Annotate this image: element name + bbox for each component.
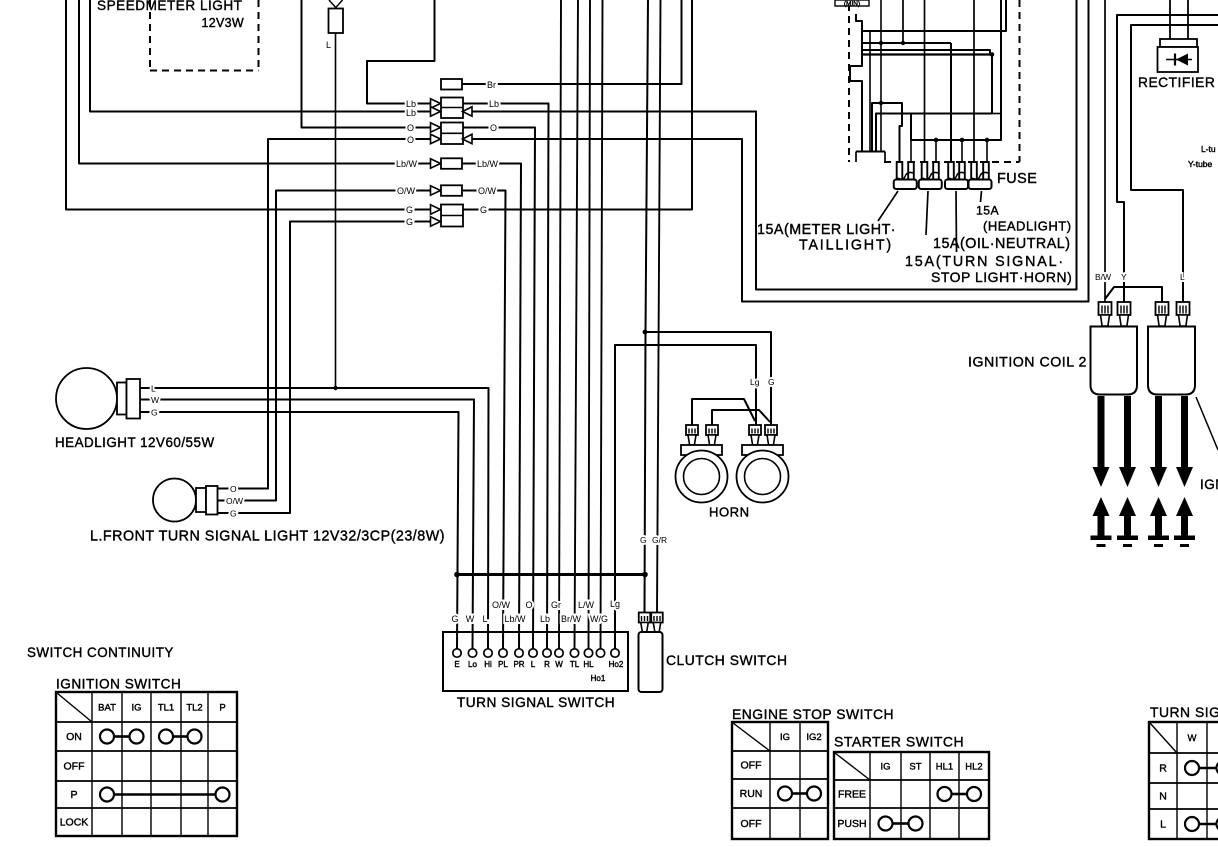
pin L of turn signal switch: [529, 649, 537, 657]
wire W/G from top to pin Ho1: [601, 0, 603, 649]
pin Hi of turn signal switch: [484, 649, 492, 657]
svg-text:R: R: [544, 660, 550, 669]
wire G row1 right, up to top edge: [463, 0, 692, 210]
svg-text:L: L: [1180, 272, 1185, 282]
svg-text:TL2: TL2: [186, 703, 202, 714]
spark plug lead arrow 2: [1124, 396, 1131, 469]
wire to fuse 3: [950, 43, 952, 163]
wire V881: [880, 0, 882, 152]
wire L to coil cap 4: [1131, 25, 1218, 302]
svg-text:IG: IG: [780, 732, 790, 743]
starter switch continuity table: [834, 752, 989, 839]
svg-text:Lb/W: Lb/W: [477, 159, 499, 169]
svg-text:O: O: [407, 135, 414, 145]
coil cap Y: [1118, 302, 1131, 315]
svg-text:O: O: [490, 123, 497, 133]
wire to fuse 4: [973, 0, 975, 163]
wire Gr from top to pin W: [559, 0, 561, 649]
ignition coil 1 body: [1148, 327, 1195, 395]
svg-text:G: G: [768, 377, 775, 387]
wire V992 to H5: [876, 55, 992, 152]
svg-text:Ho1: Ho1: [591, 674, 606, 683]
leader to ignition coil 1 label: [1196, 397, 1218, 450]
wire: to Lb/W row: [79, 0, 431, 164]
svg-text:CLUTCH SWITCH: CLUTCH SWITCH: [666, 652, 787, 668]
svg-text:G: G: [480, 205, 487, 215]
svg-text:P: P: [70, 789, 77, 801]
svg-text:G: G: [230, 509, 237, 519]
connector G (double): [431, 205, 441, 215]
svg-text:FREE: FREE: [838, 789, 866, 801]
svg-text:HL1: HL1: [936, 762, 953, 773]
spark plug 1: [1093, 497, 1110, 516]
pin Lo of turn signal switch: [468, 649, 476, 657]
svg-text:W/G: W/G: [590, 614, 608, 624]
label (MIN) box: [835, 0, 869, 6]
svg-text:O: O: [525, 600, 532, 610]
pin Ho2 of turn signal switch: [611, 649, 619, 657]
dashed handlebar boundary left: [848, 4, 850, 162]
svg-text:L: L: [531, 660, 536, 669]
svg-text:N: N: [1159, 791, 1167, 803]
svg-text:L: L: [1160, 819, 1166, 831]
svg-text:TURN SIGN: TURN SIGN: [1150, 704, 1218, 720]
rectifier wires: [1169, 0, 1171, 39]
wire B/W to coil caps 1 and 3: [1104, 0, 1106, 302]
ignition coil 2 body: [1091, 327, 1138, 395]
wire O/W turn signal, up to O/W row: [218, 191, 431, 501]
svg-text:R: R: [1159, 763, 1167, 775]
wire G turn signal, up to G row 2: [218, 222, 431, 514]
clutch switch cap G/R: [651, 613, 663, 623]
clutch switch body: [639, 632, 663, 692]
svg-text:BAT: BAT: [98, 703, 116, 714]
svg-text:IGNITION: IGNITION: [1200, 477, 1218, 492]
svg-text:Ho2: Ho2: [609, 660, 624, 669]
spark plug 2: [1119, 497, 1136, 516]
svg-text:W: W: [555, 660, 563, 669]
svg-text:HEADLIGHT 12V60/55W: HEADLIGHT 12V60/55W: [55, 435, 215, 450]
svg-text:O/W: O/W: [492, 600, 511, 610]
svg-text:Y: Y: [1121, 272, 1127, 282]
wire L from meter bulb down to headlight L wire: [335, 33, 337, 388]
wire W headlight, down to pin Lo: [140, 400, 474, 650]
wire V870: [869, 31, 871, 152]
svg-text:IG2: IG2: [806, 732, 821, 743]
horn right body: [742, 445, 783, 455]
svg-text:G: G: [451, 614, 458, 624]
svg-text:O/W: O/W: [478, 186, 497, 196]
bus wire (ground): [457, 573, 645, 576]
svg-text:Br: Br: [487, 80, 496, 90]
svg-text:L/W: L/W: [578, 600, 595, 610]
svg-text:Lb: Lb: [406, 108, 416, 118]
svg-text:12V3W: 12V3W: [202, 16, 245, 30]
wire Br/W from top to pin TL: [575, 0, 579, 649]
pin Ho1 of turn signal switch: [596, 649, 604, 657]
coil cap B/W: [1099, 302, 1112, 315]
fuse 4: [971, 162, 977, 180]
svg-text:(HEADLIGHT): (HEADLIGHT): [983, 219, 1072, 234]
connector Lb (double): [431, 99, 441, 109]
svg-text:PR: PR: [513, 660, 524, 669]
svg-text:IG: IG: [131, 703, 141, 714]
turn signal switch continuity table (clipped): [1149, 722, 1218, 839]
headlight bulb: [56, 368, 117, 429]
rectifier: [1160, 39, 1197, 47]
svg-text:OFF: OFF: [64, 761, 85, 773]
svg-text:ON: ON: [66, 731, 82, 743]
svg-text:Lb/W: Lb/W: [396, 159, 418, 169]
connector O (double): [431, 123, 441, 133]
pin E of turn signal switch: [453, 649, 461, 657]
wire into Lb row 1 from top: [367, 0, 435, 104]
wire H2 key switch: [862, 42, 951, 44]
svg-text:TURN SIGNAL SWITCH: TURN SIGNAL SWITCH: [457, 695, 615, 710]
wire Lb row1 right, down to pin R: [463, 104, 549, 650]
wire G headlight, down to pin E and bus: [140, 412, 459, 649]
pin HL of turn signal switch: [584, 649, 592, 657]
turn signal switch box: [443, 632, 628, 691]
spark plug 4: [1176, 497, 1193, 516]
svg-text:15A(OIL·NEUTRAL): 15A(OIL·NEUTRAL): [933, 236, 1071, 252]
fuse 1: [897, 162, 903, 180]
svg-text:ENGINE STOP SWITCH: ENGINE STOP SWITCH: [732, 706, 894, 722]
wire G to horn and clutch switch: [645, 0, 649, 613]
pin R of turn signal switch: [543, 649, 551, 657]
L front turn signal bulb: [153, 479, 196, 522]
wire elbow H6 to fuse 1: [872, 103, 902, 163]
svg-text:IGNITION COIL 2: IGNITION COIL 2: [968, 355, 1087, 371]
fuse 3: [948, 162, 954, 180]
pin TL of turn signal switch: [570, 649, 578, 657]
svg-text:O/W: O/W: [226, 496, 243, 506]
wire G/R to clutch switch: [657, 0, 661, 613]
engine stop switch continuity table: [732, 722, 828, 839]
svg-text:G: G: [406, 217, 413, 227]
wire V903: [902, 0, 904, 43]
svg-text:Lb/W: Lb/W: [504, 614, 526, 624]
wire: meter housing left edge / wire to G row: [66, 0, 431, 210]
svg-text:Lb: Lb: [540, 614, 550, 624]
wire Lg from horn junction down to pin Ho2: [615, 345, 756, 649]
svg-text:PUSH: PUSH: [837, 818, 866, 830]
spark plug lead arrow 3: [1155, 396, 1162, 469]
horn terminal caps: [686, 425, 698, 435]
svg-text:Br/W: Br/W: [561, 614, 582, 624]
svg-text:G: G: [640, 535, 647, 545]
svg-text:Lg: Lg: [750, 377, 760, 387]
svg-text:P: P: [219, 703, 225, 714]
svg-text:O/W: O/W: [397, 186, 416, 196]
svg-text:B/W: B/W: [1095, 272, 1111, 282]
pin W of turn signal switch: [555, 649, 563, 657]
wire Lb row2 right, to fuse panel area: [472, 0, 1077, 290]
wire H3/H4 key switch: [862, 50, 990, 55]
wire into O row 1 from top: [302, 0, 431, 128]
svg-text:L: L: [326, 40, 331, 50]
fuse leader lines: [878, 191, 898, 221]
svg-text:Lg: Lg: [610, 599, 620, 609]
svg-text:15A: 15A: [976, 204, 1000, 218]
svg-text:RECTIFIER: RECTIFIER: [1138, 75, 1215, 90]
svg-text:W: W: [466, 614, 475, 624]
svg-text:(MIN): (MIN): [844, 1, 860, 8]
svg-text:G: G: [151, 408, 158, 418]
wire Y to coil cap 2: [1117, 15, 1218, 302]
svg-text:HL2: HL2: [965, 762, 982, 773]
svg-text:IGNITION SWITCH: IGNITION SWITCH: [56, 677, 181, 692]
svg-text:FUSE: FUSE: [997, 171, 1037, 187]
speedometer light dashed box: [149, 0, 151, 71]
horn jumper wire left pair: [692, 399, 755, 425]
ignition switch housing outline: [850, 14, 862, 152]
svg-text:Lb: Lb: [489, 99, 499, 109]
svg-text:STARTER SWITCH: STARTER SWITCH: [834, 734, 964, 750]
svg-text:TAILLIGHT): TAILLIGHT): [799, 238, 893, 254]
dashed handlebar boundary right: [1019, 0, 1021, 162]
svg-text:L: L: [151, 384, 156, 394]
pin PL of turn signal switch: [499, 649, 507, 657]
spark plug 3: [1150, 497, 1167, 516]
svg-text:IG: IG: [880, 762, 890, 773]
wire O turn signal, up to O row 2: [218, 139, 431, 489]
svg-text:Lo: Lo: [468, 660, 477, 669]
component: meter bulb L: [329, 9, 344, 34]
svg-text:15A(METER LIGHT·: 15A(METER LIGHT·: [757, 222, 896, 238]
wire Lb/W right, down to pin PR: [462, 164, 521, 650]
svg-text:L-tu: L-tu: [1201, 144, 1216, 154]
svg-text:L.FRONT TURN SIGNAL LIGHT 12V3: L.FRONT TURN SIGNAL LIGHT 12V32/3CP(23/8…: [90, 529, 445, 545]
svg-text:L: L: [482, 614, 487, 624]
svg-text:W: W: [1188, 733, 1197, 744]
wire H7 fuse feeder: [911, 0, 1001, 140]
wire to fuse 2: [924, 0, 926, 163]
ignition switch continuity table: [56, 692, 237, 836]
svg-text:Y-tube: Y-tube: [1188, 159, 1213, 169]
fuse 2: [922, 162, 928, 180]
svg-text:TL: TL: [570, 660, 580, 669]
svg-text:OFF: OFF: [741, 818, 762, 830]
svg-text:Hi: Hi: [484, 660, 492, 669]
svg-text:O: O: [230, 484, 237, 494]
svg-text:ST: ST: [909, 762, 921, 773]
svg-text:SWITCH CONTINUITY: SWITCH CONTINUITY: [27, 645, 174, 660]
wire O row2 right, to fuse panel area: [472, 0, 1089, 302]
coil cap 3: [1156, 302, 1169, 315]
dashed handlebar boundary bottom: [884, 161, 1020, 163]
horn left body: [681, 445, 722, 455]
svg-text:TL1: TL1: [158, 703, 174, 714]
svg-text:LOCK: LOCK: [60, 817, 89, 829]
wire O row1 right, down to pin L: [463, 128, 535, 650]
wire Br to top edge: [462, 0, 682, 84]
svg-text:W: W: [151, 395, 159, 405]
svg-text:G/R: G/R: [652, 535, 667, 545]
svg-text:15A(TURN SIGNAL·: 15A(TURN SIGNAL·: [905, 254, 1065, 270]
pin PR of turn signal switch: [515, 649, 523, 657]
clutch switch cap G: [639, 613, 651, 623]
horn jumper wire right pair: [712, 410, 770, 425]
svg-text:SPEEDMETER LIGHT: SPEEDMETER LIGHT: [97, 0, 242, 13]
wire L/W from top to pin HL: [589, 0, 591, 649]
svg-text:RUN: RUN: [740, 788, 763, 800]
coil cap L: [1177, 302, 1190, 315]
svg-text:O: O: [407, 123, 414, 133]
svg-text:HORN: HORN: [709, 505, 750, 520]
connector Lb/W: [431, 159, 441, 169]
svg-text:STOP LIGHT·HORN): STOP LIGHT·HORN): [931, 269, 1072, 285]
svg-text:G: G: [406, 205, 413, 215]
wire O/W right, down to pin PL: [462, 191, 506, 650]
svg-text:HL: HL: [583, 660, 594, 669]
wire: housing edge to Lb row 2: [90, 0, 431, 112]
svg-text:Gr: Gr: [551, 600, 561, 610]
wire L headlight, down to pin Hi: [140, 388, 489, 649]
connector Br: [441, 79, 462, 90]
wire H1 key switch: [862, 0, 1006, 31]
svg-text:OFF: OFF: [741, 760, 762, 772]
connector O/W: [431, 186, 441, 196]
svg-text:E: E: [454, 660, 459, 669]
svg-text:PL: PL: [498, 660, 508, 669]
spark plug lead arrow 4: [1181, 396, 1188, 469]
spark plug lead arrow 1: [1098, 396, 1105, 469]
